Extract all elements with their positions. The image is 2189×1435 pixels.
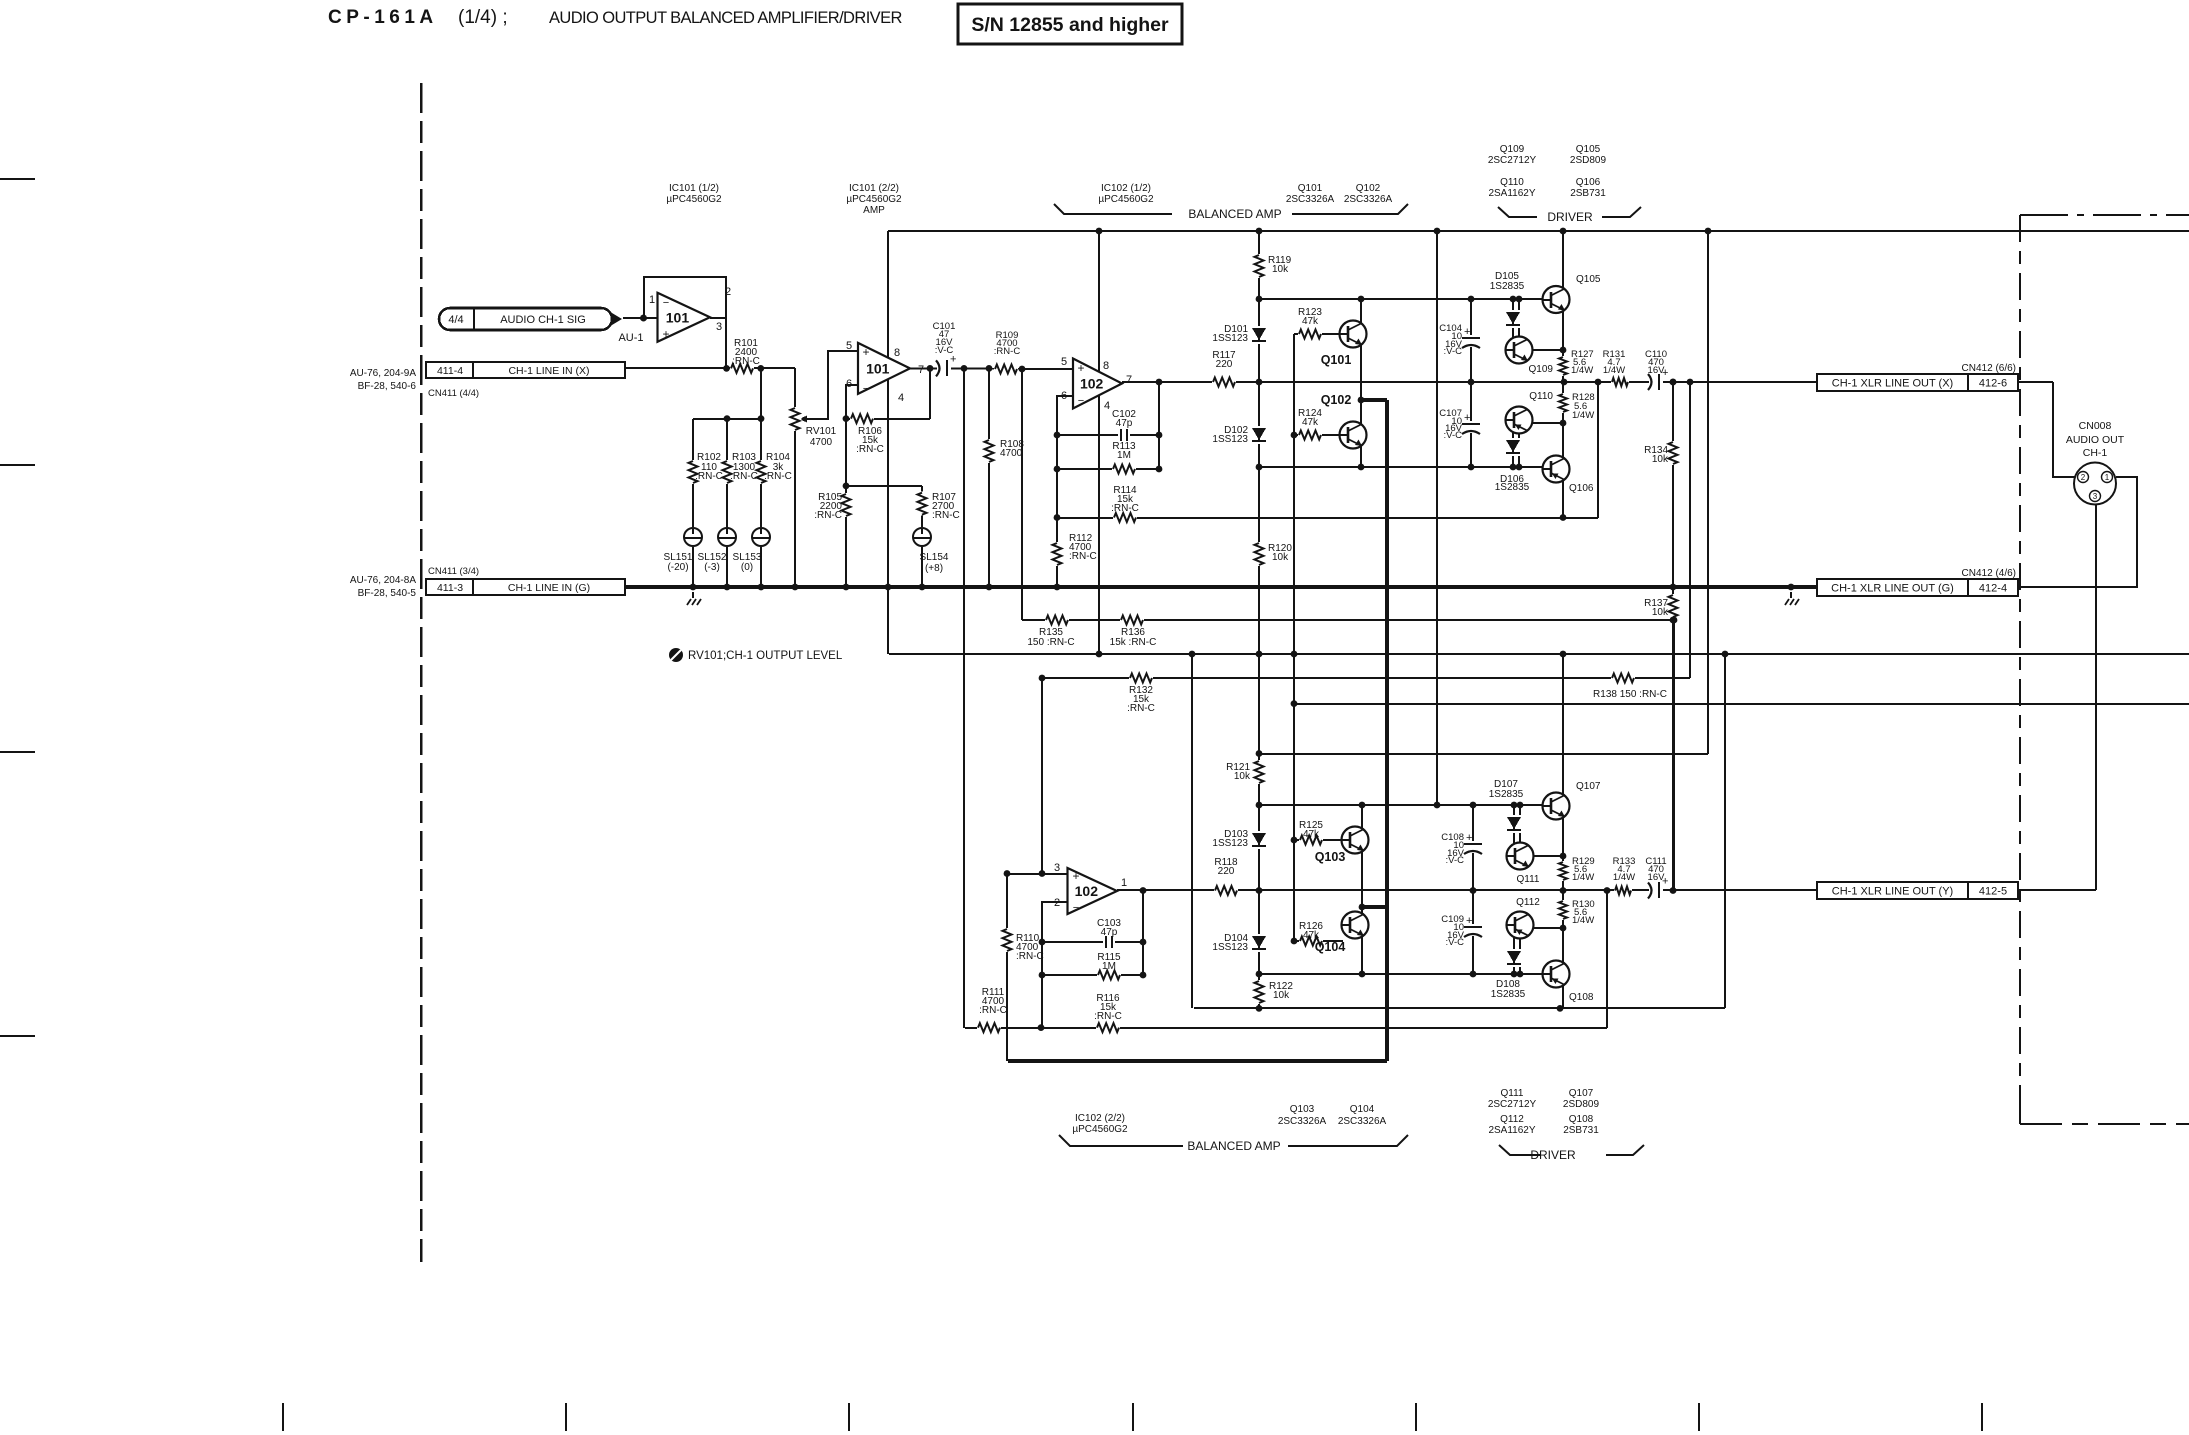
svg-text:(-3): (-3) — [704, 562, 720, 573]
svg-text:+: + — [862, 345, 869, 359]
svg-text:CN412 (4/6): CN412 (4/6) — [1962, 568, 2016, 579]
svg-text:Q106: Q106 — [1569, 483, 1594, 494]
svg-text:2SD809: 2SD809 — [1570, 155, 1607, 166]
svg-text:1/4W: 1/4W — [1571, 365, 1593, 376]
svg-text:−: − — [663, 297, 669, 309]
svg-text:−: − — [1073, 902, 1079, 914]
svg-text:16V: 16V — [1648, 365, 1666, 376]
svg-text:Q103: Q103 — [1315, 850, 1346, 864]
svg-text:RV101;CH-1 OUTPUT LEVEL: RV101;CH-1 OUTPUT LEVEL — [688, 650, 843, 662]
svg-text:Q108: Q108 — [1569, 992, 1594, 1003]
svg-text:Q110: Q110 — [1500, 177, 1524, 188]
svg-text:AU-1: AU-1 — [618, 332, 643, 344]
svg-text:1S2835: 1S2835 — [1489, 789, 1524, 800]
svg-text::RN-C: :RN-C — [1127, 703, 1155, 714]
svg-text:(0): (0) — [741, 562, 753, 573]
svg-text:S/N 12855 and higher: S/N 12855 and higher — [971, 14, 1169, 36]
svg-text:10k: 10k — [1272, 264, 1289, 275]
svg-text:1SS123: 1SS123 — [1212, 434, 1248, 445]
svg-text:4: 4 — [1104, 400, 1110, 412]
svg-text:2: 2 — [725, 286, 731, 298]
svg-text:+: + — [1077, 361, 1084, 375]
svg-text:1SS123: 1SS123 — [1212, 942, 1248, 953]
svg-text:2SA1162Y: 2SA1162Y — [1488, 188, 1535, 199]
svg-text:Q103: Q103 — [1290, 1104, 1315, 1115]
svg-text:+: + — [1464, 326, 1470, 338]
svg-text::RN-C: :RN-C — [932, 510, 960, 521]
svg-text::V-C: :V-C — [1446, 855, 1465, 866]
svg-text:CN411 (3/4): CN411 (3/4) — [428, 566, 479, 577]
svg-text:10k: 10k — [1652, 607, 1669, 618]
svg-text:BALANCED AMP: BALANCED AMP — [1187, 1139, 1280, 1153]
svg-text:Q109: Q109 — [1529, 364, 1554, 375]
svg-text:1: 1 — [649, 294, 655, 306]
svg-text:2SC2712Y: 2SC2712Y — [1488, 1099, 1537, 1110]
svg-text:Q102: Q102 — [1321, 393, 1352, 407]
svg-text:AUDIO CH-1 SIG: AUDIO CH-1 SIG — [500, 314, 586, 326]
svg-text:102: 102 — [1075, 883, 1099, 899]
svg-text:CH-1 LINE IN (G): CH-1 LINE IN (G) — [508, 582, 590, 594]
svg-text:4: 4 — [898, 392, 904, 404]
svg-text:2SC3326A: 2SC3326A — [1344, 194, 1393, 205]
svg-text::RN-C: :RN-C — [730, 471, 758, 482]
svg-text:3: 3 — [1054, 862, 1060, 874]
svg-text:SL154: SL154 — [920, 552, 949, 563]
svg-text:10k: 10k — [1273, 990, 1290, 1001]
svg-text:6: 6 — [1061, 390, 1067, 402]
svg-text:BF-28, 540-5: BF-28, 540-5 — [358, 588, 417, 599]
svg-text:5: 5 — [846, 340, 852, 352]
svg-text:Q104: Q104 — [1315, 940, 1346, 954]
svg-text:412-6: 412-6 — [1979, 378, 2007, 390]
svg-text:5: 5 — [1061, 356, 1067, 368]
svg-text:1/4W: 1/4W — [1572, 915, 1594, 926]
svg-text:Q105: Q105 — [1576, 144, 1601, 155]
svg-text:CH-1 XLR LINE OUT (G): CH-1 XLR LINE OUT (G) — [1831, 583, 1954, 595]
svg-text::RN-C: :RN-C — [732, 356, 760, 367]
svg-text:BALANCED AMP: BALANCED AMP — [1188, 207, 1281, 221]
svg-text:Q108: Q108 — [1569, 1114, 1594, 1125]
svg-text:+: + — [662, 327, 669, 341]
svg-text::RN-C: :RN-C — [1111, 503, 1139, 514]
svg-text:CH-1 XLR LINE OUT (Y): CH-1 XLR LINE OUT (Y) — [1832, 886, 1953, 898]
svg-text:16V: 16V — [1648, 872, 1666, 883]
svg-text:101: 101 — [666, 309, 690, 325]
svg-text:µPC4560G2: µPC4560G2 — [846, 194, 902, 205]
svg-text:3: 3 — [2093, 492, 2098, 501]
svg-text:1/4W: 1/4W — [1572, 410, 1594, 421]
svg-text:4700: 4700 — [1000, 448, 1023, 459]
svg-text:47p: 47p — [1101, 927, 1118, 938]
svg-text:CN412 (6/6): CN412 (6/6) — [1962, 363, 2016, 374]
svg-text:2: 2 — [2081, 473, 2086, 482]
svg-text:+: + — [1466, 915, 1472, 927]
svg-text:−: − — [1078, 395, 1084, 407]
svg-text:7: 7 — [1126, 374, 1132, 386]
svg-text:412-5: 412-5 — [1979, 886, 2007, 898]
svg-text:Q105: Q105 — [1576, 274, 1601, 285]
svg-text:220: 220 — [1218, 866, 1235, 877]
svg-text:CH-1: CH-1 — [2083, 447, 2108, 459]
svg-text:1S2835: 1S2835 — [1490, 281, 1525, 292]
svg-text:IC102 (2/2): IC102 (2/2) — [1075, 1113, 1125, 1124]
svg-text:µPC4560G2: µPC4560G2 — [1072, 1124, 1128, 1135]
svg-text:IC101 (1/2): IC101 (1/2) — [669, 183, 719, 194]
svg-text:Q112: Q112 — [1500, 1114, 1524, 1125]
svg-text:2: 2 — [1054, 897, 1060, 909]
svg-text:IC102 (1/2): IC102 (1/2) — [1101, 183, 1151, 194]
svg-text:µPC4560G2: µPC4560G2 — [1098, 194, 1154, 205]
svg-text:BF-28, 540-6: BF-28, 540-6 — [358, 381, 417, 392]
svg-text::V-C: :V-C — [935, 345, 954, 356]
svg-text:Q106: Q106 — [1576, 177, 1601, 188]
svg-text:2SC3326A: 2SC3326A — [1338, 1116, 1387, 1127]
svg-text:DRIVER: DRIVER — [1530, 1148, 1576, 1162]
svg-text:µPC4560G2: µPC4560G2 — [666, 194, 722, 205]
svg-text:CH-1 XLR LINE OUT (X): CH-1 XLR LINE OUT (X) — [1832, 378, 1953, 390]
svg-text:Q111: Q111 — [1517, 874, 1540, 885]
svg-text:1S2835: 1S2835 — [1495, 482, 1530, 493]
svg-text:AMP: AMP — [863, 205, 885, 216]
svg-text:1/4W: 1/4W — [1613, 872, 1635, 883]
svg-text::V-C: :V-C — [1444, 346, 1463, 357]
svg-text:Q102: Q102 — [1356, 183, 1381, 194]
svg-text:Q111: Q111 — [1501, 1088, 1524, 1099]
svg-text:DRIVER: DRIVER — [1547, 210, 1593, 224]
svg-text:+: + — [1466, 832, 1472, 844]
svg-text:101: 101 — [866, 360, 890, 376]
svg-text:(-20): (-20) — [667, 562, 688, 573]
svg-text:2SB731: 2SB731 — [1570, 188, 1606, 199]
svg-text:Q107: Q107 — [1576, 781, 1601, 792]
svg-text:+: + — [1464, 412, 1470, 424]
svg-text:Q107: Q107 — [1569, 1088, 1594, 1099]
svg-text:10k: 10k — [1234, 771, 1251, 782]
svg-text:R138 150 :RN-C: R138 150 :RN-C — [1593, 689, 1667, 700]
svg-text::RN-C: :RN-C — [695, 471, 723, 482]
svg-text:AU-76, 204-9A: AU-76, 204-9A — [350, 368, 416, 379]
svg-text:2SC3326A: 2SC3326A — [1278, 1116, 1327, 1127]
svg-text::RN-C: :RN-C — [1094, 1011, 1122, 1022]
svg-text:1S2835: 1S2835 — [1491, 989, 1526, 1000]
svg-text:Q109: Q109 — [1500, 144, 1525, 155]
svg-text::RN-C: :RN-C — [764, 471, 792, 482]
svg-text::RN-C: :RN-C — [1016, 951, 1044, 962]
svg-text:1/4W: 1/4W — [1572, 872, 1594, 883]
svg-text:2SD809: 2SD809 — [1563, 1099, 1600, 1110]
svg-text:47k: 47k — [1302, 417, 1319, 428]
svg-text:CN008: CN008 — [2079, 420, 2112, 432]
svg-text:CN411 (4/4): CN411 (4/4) — [428, 388, 479, 399]
svg-text:2SC3326A: 2SC3326A — [1286, 194, 1335, 205]
svg-text:1SS123: 1SS123 — [1212, 838, 1248, 849]
svg-text::RN-C: :RN-C — [814, 510, 842, 521]
svg-text:CH-1 LINE IN (X): CH-1 LINE IN (X) — [508, 365, 589, 377]
svg-text:10k: 10k — [1272, 552, 1289, 563]
svg-text:8: 8 — [894, 347, 900, 359]
svg-text:1M: 1M — [1102, 961, 1116, 972]
svg-text:412-4: 412-4 — [1979, 583, 2007, 595]
svg-text:AU-76, 204-8A: AU-76, 204-8A — [350, 575, 416, 586]
svg-text:AUDIO OUT: AUDIO OUT — [2066, 434, 2125, 446]
svg-text:AUDIO OUTPUT BALANCED AMPLIFIE: AUDIO OUTPUT BALANCED AMPLIFIER/DRIVER — [549, 9, 902, 27]
svg-text:1: 1 — [2105, 473, 2110, 482]
svg-text:102: 102 — [1080, 376, 1104, 392]
svg-text:2SC2712Y: 2SC2712Y — [1488, 155, 1537, 166]
svg-text::RN-C: :RN-C — [1069, 551, 1097, 562]
svg-text:4700: 4700 — [810, 437, 833, 448]
svg-text:8: 8 — [1103, 360, 1109, 372]
svg-text::RN-C: :RN-C — [994, 346, 1021, 357]
svg-text::RN-C: :RN-C — [979, 1005, 1007, 1016]
svg-text::V-C: :V-C — [1444, 430, 1463, 441]
svg-text:47k: 47k — [1303, 829, 1320, 840]
svg-text:(+8): (+8) — [925, 563, 943, 574]
svg-text:Q101: Q101 — [1321, 353, 1352, 367]
svg-text::V-C: :V-C — [1446, 937, 1465, 948]
svg-text:411-3: 411-3 — [437, 582, 463, 594]
svg-text:47p: 47p — [1116, 418, 1133, 429]
svg-text:4/4: 4/4 — [448, 314, 463, 326]
svg-text:411-4: 411-4 — [437, 365, 463, 377]
svg-text:Q110: Q110 — [1529, 391, 1553, 402]
svg-text:1/4W: 1/4W — [1603, 365, 1625, 376]
svg-text:3: 3 — [716, 321, 722, 333]
svg-text:IC101 (2/2): IC101 (2/2) — [849, 183, 899, 194]
svg-text:15k :RN-C: 15k :RN-C — [1110, 637, 1157, 648]
svg-text:150 :RN-C: 150 :RN-C — [1027, 637, 1074, 648]
svg-text:1: 1 — [1121, 877, 1127, 889]
svg-text:10k: 10k — [1652, 454, 1669, 465]
svg-text:CP-161A: CP-161A — [328, 7, 438, 28]
svg-text:Q104: Q104 — [1350, 1104, 1375, 1115]
svg-text:Q112: Q112 — [1516, 897, 1540, 908]
svg-text:220: 220 — [1216, 359, 1233, 370]
svg-text::RN-C: :RN-C — [856, 444, 884, 455]
svg-text:2SA1162Y: 2SA1162Y — [1488, 1125, 1535, 1136]
svg-text:+: + — [1072, 869, 1079, 883]
svg-text:Q101: Q101 — [1298, 183, 1323, 194]
svg-text:(1/4) ;: (1/4) ; — [458, 7, 508, 28]
svg-text:2SB731: 2SB731 — [1563, 1125, 1599, 1136]
svg-text:47k: 47k — [1302, 316, 1319, 327]
svg-text:1SS123: 1SS123 — [1212, 333, 1248, 344]
svg-text:−: − — [863, 383, 869, 395]
svg-text:1M: 1M — [1117, 450, 1131, 461]
svg-text:7: 7 — [918, 364, 924, 376]
svg-text:RV101: RV101 — [806, 426, 837, 437]
svg-text:6: 6 — [846, 378, 852, 390]
